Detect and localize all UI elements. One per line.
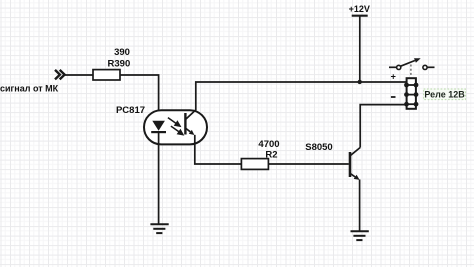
wire: phototransistor collector to +12V rail	[196, 82, 407, 110]
resistor R390	[93, 70, 120, 80]
input port chevron (signal from MCU)	[55, 70, 65, 80]
svg-text:R390: R390	[108, 58, 131, 69]
optocoupler light arrows	[168, 118, 183, 135]
power +12V symbol	[349, 4, 370, 82]
wire: transistor emitter to ground	[359, 180, 361, 232]
svg-text:+12V: +12V	[349, 4, 370, 14]
relay K1 coil	[404, 78, 418, 109]
ground (emitter)	[351, 231, 369, 240]
svg-text:390: 390	[114, 47, 130, 58]
optocoupler LED	[151, 121, 166, 132]
label "-" (relay coil)	[391, 96, 396, 98]
resistor R2	[241, 159, 268, 170]
svg-text:PC817: PC817	[116, 105, 145, 116]
ground (LED side)	[150, 224, 168, 233]
svg-text:S8050: S8050	[305, 142, 332, 153]
relay switch contact	[389, 58, 435, 77]
svg-text:R2: R2	[265, 149, 277, 160]
optocoupler U1 PC817 body	[144, 110, 207, 144]
wire: R2 to transistor base	[268, 163, 348, 165]
svg-text:+: +	[391, 72, 396, 82]
wire: phototransistor emitter to R2	[195, 135, 242, 164]
junction dot on +12V rail	[358, 80, 362, 84]
label "Реле 12В" (selected, green)	[424, 89, 466, 100]
svg-text:сигнал от МК: сигнал от МК	[0, 83, 59, 93]
transistor Q1 S8050	[350, 148, 360, 180]
wire: input to R390	[65, 74, 93, 76]
svg-text:Реле 12В: Реле 12В	[424, 90, 465, 100]
optocoupler phototransistor	[185, 110, 195, 135]
wire: transistor collector to relay minus	[360, 105, 407, 148]
wire: LED cathode to ground	[158, 132, 160, 224]
wire: R390 to optocoupler LED anode	[120, 75, 159, 121]
